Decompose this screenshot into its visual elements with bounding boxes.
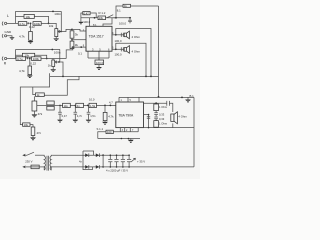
wire to C5: [98, 58, 100, 60]
wire bus A horizontal: [50, 75, 159, 77]
transformer T1 primary: [44, 156, 45, 170]
wire output1: [112, 34, 124, 36]
svg-text:100: 100: [107, 130, 112, 134]
capacitor C5 box: [95, 60, 104, 65]
resistor R11 box on tap line: [36, 93, 45, 97]
svg-text:4,7k: 4,7k: [19, 35, 25, 39]
wire out1 return loop: [116, 29, 151, 77]
resistor R15 chain: [76, 103, 84, 107]
wire feedback riser x15.5: [15, 11, 17, 23]
connector J3 right input jack: [2, 57, 3, 61]
capacitor C18: [121, 155, 125, 167]
node dots on bus: [62, 76, 64, 78]
node dot rail: [181, 97, 183, 99]
capacitor C19: [127, 155, 131, 167]
wire out2 return loop: [116, 43, 146, 76]
node Zobel top: [155, 102, 157, 104]
wire wiper out to bus: [59, 62, 63, 76]
wire W3 tap: [45, 76, 80, 95]
resistor R5 divider lower: [70, 41, 74, 49]
wire RC upper line ch2: [16, 49, 61, 51]
wire drop to R8 ch2: [29, 59, 31, 67]
wire divider top to chip pin1: [72, 29, 86, 31]
switch S1 lever: [107, 15, 114, 18]
ground R17: [104, 121, 106, 122]
node dot out1: [115, 34, 117, 36]
node wiper dot P2: [58, 61, 60, 63]
capacitor C15 output: [167, 101, 170, 106]
svg-text:4 x 2200 µF / 35 V: 4 x 2200 µF / 35 V: [106, 168, 128, 172]
svg-text:4,7µ: 4,7µ: [19, 22, 25, 26]
wire right bus vertical: [158, 6, 160, 97]
wire mains upper: [35, 154, 44, 156]
node dot bridge right top: [102, 154, 104, 156]
wire jack1 to C1: [7, 22, 19, 24]
resistor R2 series box ch1: [33, 22, 41, 26]
ground C3: [78, 22, 83, 25]
wire C3 right down to line: [90, 13, 96, 18]
node dot C4: [129, 17, 131, 19]
resistor R7 series box ch2: [32, 57, 42, 61]
diode D3: [83, 166, 103, 168]
svg-text:L: L: [7, 14, 9, 18]
wire R11 line to R13 top: [33, 96, 35, 101]
svg-text:100,0: 100,0: [96, 61, 103, 65]
svg-text:10k: 10k: [99, 16, 104, 20]
capacitor C2 input box ch2: [16, 57, 26, 61]
fuse F1: [31, 165, 39, 169]
ground symbol U2: [130, 139, 132, 140]
resistor R13 vertical first: [32, 101, 37, 111]
transformer T1 core: [47, 156, 48, 171]
node dot chain 1: [87, 105, 89, 107]
node dots ground rail: [121, 138, 123, 140]
diode D4: [96, 165, 99, 169]
switch S2 lever: [25, 152, 34, 155]
ground R13: [33, 111, 35, 114]
svg-text:47k: 47k: [38, 112, 43, 116]
svg-text:GND: GND: [5, 30, 13, 34]
wire DC plus rail: [103, 154, 129, 156]
supply arrow +35V: [131, 158, 136, 162]
mains connector upper arrow: [22, 154, 25, 157]
op-amp U2 TBA790: [116, 102, 144, 128]
wire drop to pot2 top: [52, 59, 54, 61]
ground under R3 ch1: [30, 39, 32, 42]
wire jack2 to ground: [7, 36, 12, 37]
capacitor C14 Zobel: [154, 117, 158, 121]
node dot out2: [115, 48, 117, 50]
svg-text:100n: 100n: [54, 12, 61, 16]
svg-text:4 Ohm: 4 Ohm: [132, 35, 141, 39]
svg-text:230 V: 230 V: [25, 160, 32, 164]
svg-text:TDA 1517: TDA 1517: [89, 35, 104, 39]
ground symbol J2: [9, 37, 14, 40]
filter capacitors C16..C19: [108, 154, 131, 167]
wire bridge top detour: [83, 151, 94, 155]
capacitor C12 box on rail: [106, 130, 113, 133]
ground hang at rail: [187, 97, 189, 99]
node dot2 chain: [110, 105, 112, 107]
node dot at x116: [115, 17, 117, 19]
svg-text:100k: 100k: [34, 22, 41, 26]
wire RC upper line y11.4: [16, 10, 62, 12]
wire secondary lower to bridge: [52, 166, 83, 168]
wire speaker LS3 bottom: [172, 123, 174, 127]
wire chain line: [37, 104, 116, 106]
resistor R8 vertical ch2: [28, 66, 32, 75]
wire divider mid to chip: [72, 39, 86, 41]
svg-text:1 Ohm: 1 Ohm: [159, 122, 168, 126]
wire after switch: [114, 17, 117, 19]
wire bottom tie rail U2: [106, 131, 138, 133]
capacitor C1 input box ch1: [18, 22, 27, 26]
svg-text:4,7k: 4,7k: [19, 69, 25, 73]
mains connector lower arrow: [22, 166, 25, 169]
pin stubs bottom tie: [88, 51, 109, 58]
capacitor C6 output1: [121, 33, 123, 37]
diode D1: [83, 154, 103, 156]
svg-text:4,7k: 4,7k: [108, 115, 114, 119]
svg-text:0,47: 0,47: [84, 11, 90, 15]
wire wiper riser to RC line ch2: [58, 50, 61, 63]
wire link to channel2: [66, 47, 73, 58]
svg-text:4,7n: 4,7n: [77, 114, 83, 118]
svg-text:TBA 790A: TBA 790A: [118, 114, 134, 118]
svg-text:1,5n: 1,5n: [90, 114, 96, 118]
svg-text:10k: 10k: [49, 24, 54, 28]
node dot C3: [94, 17, 96, 19]
svg-text:0,33: 0,33: [159, 117, 165, 121]
plus mark ch1: [27, 22, 29, 24]
wire box2 to pot ch1: [41, 23, 56, 28]
speaker LS3: [171, 114, 174, 121]
wire bridge left vertical: [82, 151, 84, 167]
svg-text:4,7µ: 4,7µ: [17, 57, 23, 61]
wire staircase to tone net: [20, 76, 49, 121]
svg-text:3k: 3k: [75, 43, 79, 47]
svg-text:4 Ohm: 4 Ohm: [178, 114, 187, 118]
svg-text:100,0: 100,0: [115, 53, 122, 57]
wire U2 bottom wire: [144, 127, 195, 129]
wire boxH to V2: [30, 125, 33, 127]
capacitor C8 vertical V2: [31, 127, 35, 136]
node dot bridge right bottom: [102, 166, 104, 168]
node divider mid: [71, 38, 73, 41]
svg-text:11k: 11k: [64, 104, 69, 108]
pin stub chip pin2 top: [89, 18, 91, 27]
op-amp U1 TDA1517: [86, 26, 112, 51]
svg-text:100,0: 100,0: [115, 39, 122, 43]
wire RC lower line ch2: [16, 55, 47, 58]
capacitor CA stacked upper: [47, 101, 54, 105]
wire DC minus rail: [103, 166, 194, 168]
resistor R19 Zobel bottom: [154, 121, 159, 128]
wire RC lower line y16.4: [16, 16, 49, 23]
node divider top dot: [71, 29, 73, 31]
wire x20.3 to box H: [20, 122, 22, 125]
connector J1 left input jack: [2, 22, 3, 26]
svg-text:R 1.2: R 1.2: [99, 11, 106, 15]
svg-text:100,0: 100,0: [119, 22, 126, 26]
resistor R14 chain: [63, 103, 71, 107]
svg-text:B,1: B,1: [190, 94, 195, 98]
pin stubs bottom U2: [120, 128, 138, 132]
wire bus A left stub up: [49, 73, 51, 76]
wire box to pot2 and divider link: [41, 58, 66, 60]
wire divider bottom into chip pin9: [72, 47, 86, 49]
pin stubs top U2: [119, 97, 139, 102]
transformer T1 secondary: [50, 156, 51, 170]
resistor R16 chain: [89, 103, 97, 107]
wire standby to top resistor: [116, 6, 123, 18]
pin stub dogleg to chip: [103, 18, 112, 27]
wire output2: [112, 48, 124, 50]
connector J2 gnd jack: [2, 34, 3, 38]
svg-text:10,0: 10,0: [89, 97, 95, 101]
svg-text:3k: 3k: [75, 32, 79, 36]
capacitor CB stacked lower: [47, 106, 54, 110]
wire mains lower to fuse: [25, 166, 31, 168]
capacitor C16: [108, 155, 112, 167]
resistor R4 divider upper: [70, 31, 74, 38]
node dot on upper RC line ch2: [51, 49, 53, 51]
wire ground rail U2: [98, 138, 140, 140]
wire Zobel bottom to rail: [155, 126, 157, 128]
potentiometer P1 body: [55, 29, 58, 37]
wire bottom tie rail: [88, 57, 109, 59]
svg-text:1,5k: 1,5k: [90, 104, 96, 108]
ground C8: [32, 136, 34, 138]
node junction ch2 main: [29, 58, 31, 60]
svg-text:100k: 100k: [33, 57, 40, 61]
svg-text:S 1.1: S 1.1: [97, 127, 104, 131]
wire wiper to divider ch1: [61, 29, 72, 31]
wire C3 left to ground: [81, 13, 83, 22]
ground under P2: [52, 67, 54, 70]
resistor R6 feedback box ch2: [22, 53, 34, 57]
svg-text:10k: 10k: [26, 15, 31, 19]
capacitor C4 at line end: [129, 18, 131, 20]
wire U2 output top: [144, 102, 167, 104]
ground under R8 ch2: [29, 74, 31, 77]
svg-text:0,33: 0,33: [159, 112, 165, 116]
ground C5: [96, 67, 102, 70]
svg-text:8 1: 8 1: [93, 23, 97, 27]
svg-text:+ 35 V: + 35 V: [137, 160, 145, 164]
svg-text:4n: 4n: [77, 104, 80, 108]
svg-text:0,1: 0,1: [78, 52, 82, 56]
wire drop to R3 ch1: [30, 23, 32, 31]
svg-text:0,47: 0,47: [62, 114, 68, 118]
hanging capacitor C9: [59, 108, 61, 120]
svg-text:47n: 47n: [37, 131, 42, 135]
node dot R6 to main: [46, 58, 48, 60]
capacitor C17: [114, 155, 118, 167]
svg-text:0,22: 0,22: [30, 61, 36, 65]
resistor R10 top right: [123, 4, 131, 7]
wiper arrow P1: [58, 31, 61, 33]
node dot on upper RC line: [52, 11, 54, 13]
wire wiper riser to RC line ch1: [60, 11, 62, 31]
node dot R1 to main: [48, 23, 50, 25]
resistor R3 vertical ch1: [29, 32, 33, 41]
svg-text:100,0: 100,0: [83, 20, 90, 24]
wire secondary upper to bridge: [52, 154, 83, 156]
svg-text:8,1: 8,1: [117, 9, 121, 13]
ground under P1: [55, 37, 57, 39]
svg-text:4,7: 4,7: [109, 100, 113, 104]
hanging capacitor C10: [74, 108, 76, 120]
wire chip top line y17.8: [81, 17, 131, 19]
wire C5 to ground: [98, 65, 100, 67]
node bus A joins rail: [158, 96, 160, 98]
wiper arrow P2: [55, 61, 59, 63]
wire R10 to right bus: [131, 5, 159, 7]
plus mark ch2: [27, 57, 29, 59]
speaker LS2: [124, 48, 126, 52]
wire rail corner down: [98, 132, 106, 139]
wire fuse to transformer: [39, 166, 43, 168]
resistor R18 Zobel top: [154, 104, 159, 111]
node dot chain at R17: [104, 105, 106, 107]
wire R11 left riser: [33, 87, 36, 95]
resistor R1 feedback box ch1: [24, 14, 34, 18]
wire bridge mid vertical: [102, 155, 104, 167]
capacitor C7 output2: [121, 47, 123, 51]
wire bridge bottom detour: [83, 167, 92, 170]
wire right return vertical: [193, 97, 195, 166]
wire U2 mid feedback leg: [144, 115, 149, 128]
diode D2: [96, 153, 99, 157]
capacitor C13 Zobel: [154, 111, 158, 117]
node divider bottom dot: [72, 46, 74, 48]
speaker LS1: [124, 33, 126, 37]
capacitor C3 box above: [83, 12, 90, 15]
resistor R9 standby: [98, 16, 106, 20]
resistor R17 to ground: [104, 105, 106, 112]
resistor R12 box H: [23, 123, 30, 126]
potentiometer P2 body: [52, 60, 55, 67]
hanging capacitor C11: [88, 108, 90, 120]
node wiper dot P1: [60, 31, 62, 33]
svg-text:4 Ohm: 4 Ohm: [132, 50, 141, 54]
wire feedback riser ch2: [15, 50, 17, 59]
node dot2 pin9 wire: [80, 46, 82, 48]
node junction ch1 main: [30, 23, 32, 25]
svg-text:10k: 10k: [24, 123, 29, 127]
wire top rail U2: [119, 96, 194, 98]
wire jack3 to C2: [7, 58, 16, 60]
